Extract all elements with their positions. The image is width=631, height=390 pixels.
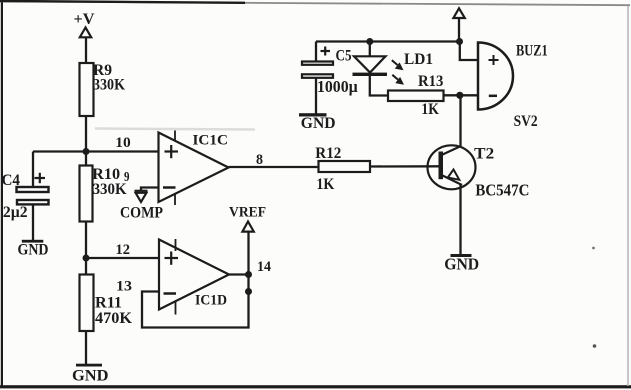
svg-text:T2: T2 (474, 146, 494, 163)
svg-text:+V: +V (74, 11, 95, 28)
+V power arrow (80, 28, 91, 38)
wire C4 branch down (32, 152, 34, 188)
wire node2 to R11 (85, 258, 87, 275)
svg-text:IC1C: IC1C (193, 133, 229, 149)
resistor R11 (80, 275, 94, 332)
wire R11 to GND (85, 331, 87, 365)
IC1D plus input symbol (165, 252, 179, 265)
svg-text:LD1: LD1 (404, 51, 433, 68)
svg-text:SV2: SV2 (514, 113, 538, 130)
wire +V to R9 (85, 38, 87, 65)
transistor T2 circle (428, 145, 476, 189)
svg-text:GND: GND (72, 368, 109, 385)
svg-text:14: 14 (257, 259, 271, 275)
wire LED cathode down to R13 (370, 76, 388, 96)
svg-text:R12: R12 (315, 145, 341, 162)
wire node row to IC1C + input (33, 150, 159, 152)
wire T2 emitter down (459, 185, 461, 255)
wire LED anode down (369, 42, 371, 57)
scan smudge (95, 129, 255, 130)
IC1C bottom power tick (174, 195, 176, 206)
ground (T2) (451, 254, 472, 257)
wire output up to VREF (247, 232, 249, 275)
VREF arrow (242, 222, 253, 232)
buzzer BUZ1 body (478, 43, 513, 110)
svg-text:10: 10 (115, 135, 131, 151)
top right power arrow (453, 8, 464, 18)
wire IC1C output (pin 8) to R12 (229, 166, 319, 168)
T2 emitter arrowhead (448, 170, 460, 180)
wire junction to buzzer - (460, 94, 478, 96)
wire R10 to node2 (85, 222, 87, 260)
IC1C top power tick (174, 131, 176, 142)
svg-text:COMP: COMP (120, 205, 163, 222)
wire junction to buzzer + (460, 42, 478, 61)
svg-text:R13: R13 (418, 73, 444, 90)
svg-text:GND: GND (18, 242, 49, 259)
wire R13 to collector junction (444, 94, 461, 96)
svg-text:C4: C4 (2, 172, 21, 189)
svg-text:8: 8 (256, 152, 263, 168)
T2 base bar (439, 152, 444, 180)
svg-text:BC547C: BC547C (475, 181, 529, 200)
IC1D bottom power tick (175, 302, 177, 315)
LED LD1 triangle (354, 56, 386, 72)
wire IC1C minus to COMP (141, 188, 159, 192)
wire node to R10 (85, 152, 87, 167)
svg-text:C5: C5 (336, 48, 352, 65)
COMP arrow (135, 191, 148, 202)
IC1C plus input symbol (165, 145, 179, 158)
svg-text:VREF: VREF (229, 205, 266, 221)
svg-text:R11: R11 (95, 295, 122, 312)
speck 2 (593, 344, 597, 348)
resistor R12 (319, 161, 371, 172)
svg-text:1000µ: 1000µ (317, 77, 358, 96)
capacitor C4 (17, 187, 49, 204)
svg-text:13: 13 (116, 279, 132, 295)
wire T2 collector up (459, 95, 461, 147)
svg-text:GND: GND (444, 255, 479, 274)
op-amp IC1D (159, 240, 229, 310)
resistor R13 (388, 91, 444, 102)
junction node R13/T2/buzzer (456, 92, 463, 99)
LED LD1 cathode bar (353, 73, 388, 76)
op-amp IC1C (159, 133, 229, 203)
LED light arrow 2 (392, 75, 404, 85)
ground (C4) (22, 240, 44, 243)
svg-text:2µ2: 2µ2 (3, 204, 28, 221)
IC1D top power tick (175, 239, 177, 251)
svg-text:1K: 1K (316, 176, 334, 193)
T2 collector line (442, 146, 462, 155)
svg-text:470K: 470K (95, 310, 133, 327)
IC1C minus input symbol (163, 186, 176, 189)
wire node2 to IC1D + input (86, 257, 159, 259)
junction node top right (456, 38, 463, 45)
svg-text:12: 12 (116, 242, 131, 258)
svg-text:330K: 330K (93, 181, 128, 198)
IC1D minus input symbol (164, 292, 177, 295)
wire R9 to node (85, 116, 87, 152)
wire R12 to T2 base (370, 165, 440, 167)
junction node IC1D output (245, 271, 252, 278)
svg-text:1K: 1K (421, 101, 439, 118)
buzzer + symbol (489, 55, 499, 65)
LED light arrow 1 (392, 60, 404, 70)
buzzer - symbol (489, 95, 497, 98)
C4 polarity + (35, 173, 46, 183)
wire arrow to junction (458, 18, 460, 42)
C5 polarity + (321, 47, 331, 56)
svg-text:GND: GND (301, 115, 336, 132)
ground (R11) (76, 364, 102, 367)
wire C5 to GND (315, 79, 317, 114)
speck 1 (592, 247, 595, 250)
svg-text:330K: 330K (93, 77, 125, 94)
wire C5 to rail (315, 42, 317, 62)
junction node feedback (245, 288, 252, 295)
ground (C5) (299, 113, 327, 116)
junction node LED anode (366, 38, 373, 45)
resistor R9 (80, 63, 94, 116)
wire C4 to GND (32, 205, 34, 241)
svg-text:IC1D: IC1D (195, 293, 227, 309)
junction node R10/R11/IC1D (83, 255, 90, 262)
junction node at R9/R10/C4 (83, 148, 90, 155)
T2 emitter line (442, 175, 463, 185)
wire IC1D output (229, 273, 249, 275)
top rail wire (316, 40, 461, 42)
feedback wire IC1D (142, 275, 249, 328)
resistor R10 (80, 166, 93, 222)
capacitor C5 (302, 62, 333, 78)
svg-text:BUZ1: BUZ1 (516, 43, 548, 60)
